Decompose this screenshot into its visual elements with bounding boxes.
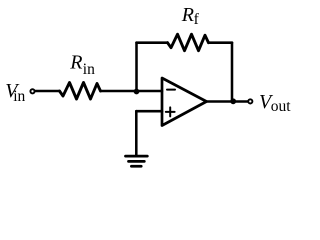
op-amp plus sign: [166, 111, 175, 113]
wire node A up to feedback: [135, 43, 138, 92]
op-amp U1 triangle: [162, 78, 207, 126]
ground: [126, 155, 148, 158]
wire R_in to op-amp inverting input: [101, 90, 163, 93]
label V_in: [5, 80, 25, 105]
wire op-amp output: [207, 100, 248, 103]
wire feedback down to output node: [231, 43, 234, 102]
label R_f: [181, 4, 200, 28]
label V_out: [259, 91, 291, 115]
input terminal V_in: [30, 89, 34, 93]
node A junction dot: [134, 89, 140, 95]
wire input terminal to R_in: [35, 90, 60, 93]
svg-text:R: R: [69, 52, 82, 74]
svg-text:out: out: [271, 98, 292, 115]
wire feedback top right: [209, 41, 233, 44]
svg-text:R: R: [181, 4, 194, 26]
svg-text:in: in: [83, 61, 95, 78]
wire feedback top left: [137, 41, 168, 44]
node output junction dot: [230, 98, 236, 104]
wire down to ground: [135, 111, 138, 156]
wire op-amp noninverting input: [136, 110, 162, 113]
resistor R_in: [60, 83, 101, 100]
resistor R_f: [168, 34, 209, 51]
svg-text:in: in: [13, 88, 25, 105]
svg-text:f: f: [194, 11, 200, 28]
output terminal V_out: [248, 99, 252, 103]
op-amp minus sign: [167, 89, 175, 91]
label R_in: [69, 52, 95, 79]
